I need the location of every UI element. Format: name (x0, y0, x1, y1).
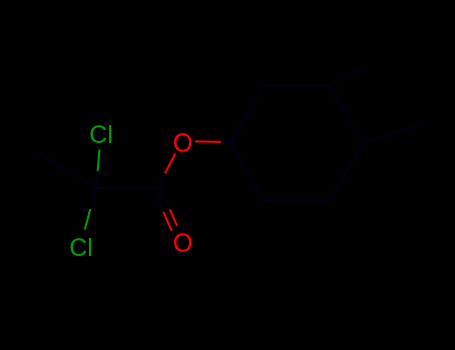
svg-text:Cl: Cl (89, 121, 113, 149)
svg-text:Cl: Cl (69, 234, 93, 262)
svg-text:O: O (173, 129, 193, 157)
svg-text:O: O (173, 229, 193, 257)
